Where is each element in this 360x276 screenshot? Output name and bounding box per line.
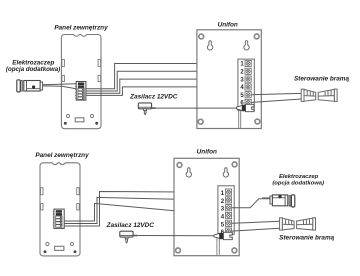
gate symbol (bottom) bbox=[280, 218, 316, 230]
unifon corner hole bottom-right bbox=[255, 119, 260, 124]
bottom panel screw dot right bbox=[74, 250, 77, 253]
terminal block TB1 (top panel) bbox=[75, 82, 86, 101]
panel speaker hole right bbox=[90, 114, 93, 117]
panel screw dot right bbox=[95, 122, 98, 125]
unifon corner hole bottom-left bbox=[198, 119, 203, 124]
svg-text:Unifon: Unifon bbox=[218, 21, 238, 28]
wire strike to panel block (lower) bbox=[43, 86, 77, 89]
bottom unifon keyhole mount left bbox=[186, 168, 191, 177]
panel speaker slot bbox=[75, 118, 84, 122]
wire panel block row4 to unifon terminal 4 bbox=[86, 87, 240, 96]
wire terminal 6 to gate (bottom) bbox=[232, 228, 280, 231]
svg-text:(opcja dodatkowa): (opcja dodatkowa) bbox=[6, 66, 60, 73]
gate symbol (top) bbox=[301, 89, 337, 101]
bottom panel speaker slot bbox=[55, 246, 64, 250]
bottom unifon corner hole top-right bbox=[232, 162, 237, 167]
panel side tab right lower bbox=[98, 75, 101, 81]
svg-text:Panel zewnętrzny: Panel zewnętrzny bbox=[35, 152, 89, 159]
electric strike body bbox=[24, 81, 40, 92]
svg-text:Sterowanie bramą: Sterowanie bramą bbox=[294, 76, 349, 83]
unifon terminal strip (bottom) bbox=[218, 186, 234, 235]
wire terminal 5 to gate (top) bbox=[251, 93, 301, 94]
wire strike to panel block (upper) bbox=[43, 83, 77, 86]
DC jack (top unifon) bbox=[237, 104, 255, 111]
panel screw dot left bbox=[64, 122, 67, 125]
unifon corner hole top-right bbox=[254, 34, 259, 39]
power supply plug (bottom) bbox=[120, 231, 137, 244]
electric strike body (bottom) bbox=[272, 195, 287, 206]
terminal screw squares (bottom unifon) bbox=[225, 189, 231, 234]
wire terminal 6 to gate (top) bbox=[251, 99, 301, 103]
panel side tab left upper bbox=[62, 59, 65, 66]
bottom panel side tab left lower bbox=[41, 204, 44, 210]
DC jack (bottom unifon) bbox=[214, 232, 232, 239]
panel side tab left lower bbox=[62, 75, 65, 81]
panel speaker hole left bbox=[66, 114, 69, 117]
electric strike flange (bottom) bbox=[289, 196, 291, 206]
svg-text:(opcja dodatkowa): (opcja dodatkowa) bbox=[272, 180, 324, 186]
unifon terminal strip (top) bbox=[238, 59, 254, 111]
wire unifon terminal 3 to strike (bottom) bbox=[232, 199, 270, 208]
bottom unifon corner hole top-left bbox=[177, 163, 182, 168]
unifon housing (top) bbox=[197, 30, 261, 129]
bottom unifon corner hole bottom-right bbox=[232, 248, 237, 253]
bottom panel side tab right upper bbox=[77, 188, 80, 195]
unifon keyhole mount left bbox=[207, 41, 212, 50]
wire terminal 5 to gate (bottom) bbox=[232, 221, 280, 223]
terminals 1-6 (bottom unifon) bbox=[221, 191, 225, 236]
bottom unifon keyhole mount right bbox=[223, 168, 228, 177]
wire strike double line bbox=[262, 197, 270, 199]
wire panel block row1 to unifon terminal 1 bbox=[86, 64, 240, 89]
wire bottom block row6 to unifon terminal 1 bbox=[64, 192, 221, 227]
terminal block TB2 (bottom panel) bbox=[53, 209, 64, 228]
bottom panel speaker hole left bbox=[46, 242, 49, 245]
bottom unifon corner hole bottom-left bbox=[176, 248, 181, 253]
electric strike (bottom): terminal lug bbox=[270, 196, 272, 204]
bottom panel side tab left upper bbox=[41, 188, 44, 195]
unifon corner hole top-left bbox=[199, 34, 204, 39]
bottom panel side tab right lower bbox=[77, 204, 80, 210]
svg-text:Zasilacz 12VDC: Zasilacz 12VDC bbox=[129, 93, 178, 100]
panel side tab right upper bbox=[98, 59, 101, 66]
terminals 1-6 (top unifon) bbox=[240, 62, 244, 107]
wire DC jack to power supply (top) bbox=[154, 107, 237, 109]
wire DC jack to power supply (bottom) bbox=[136, 235, 214, 237]
unifon housing (bottom) bbox=[174, 158, 239, 255]
outer door panel housing (bottom) bbox=[40, 163, 80, 256]
svg-text:Sterowanie bramą: Sterowanie bramą bbox=[279, 234, 334, 241]
terminal screw squares (top unifon) bbox=[245, 60, 251, 105]
electric strike terminal lug bbox=[40, 82, 42, 90]
svg-text:Unifon: Unifon bbox=[197, 149, 217, 156]
wire bottom block row4 to unifon terminal 4 bbox=[64, 203, 225, 221]
wire bottom block row5 to unifon terminal 2 bbox=[64, 197, 221, 223]
svg-text:Panel zewnętrzny: Panel zewnętrzny bbox=[54, 25, 108, 32]
strip channel lines to bottom (bottom unifon) bbox=[217, 234, 219, 255]
electric strike plate (bottom) bbox=[291, 195, 294, 207]
outer door panel housing (top) bbox=[61, 35, 101, 129]
power supply plug (top) bbox=[138, 103, 155, 116]
svg-text:Elektrozaczep: Elektrozaczep bbox=[279, 174, 319, 180]
electric strike flange bbox=[21, 81, 23, 91]
strip channel lines to bottom bbox=[239, 111, 241, 129]
wire panel block row2 to unifon terminal 2 bbox=[86, 71, 240, 91]
bottom panel speaker hole right bbox=[70, 242, 73, 245]
wire panel block row3 to unifon terminal 3 bbox=[86, 79, 240, 93]
unifon keyhole mount right bbox=[244, 41, 249, 50]
svg-text:Zasilacz 12VDC: Zasilacz 12VDC bbox=[106, 222, 155, 229]
electric strike (top): strike plate bbox=[17, 80, 20, 92]
bottom panel screw dot left bbox=[44, 250, 47, 253]
